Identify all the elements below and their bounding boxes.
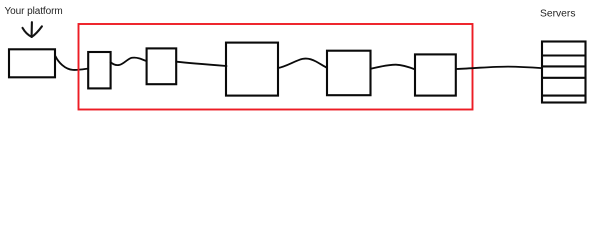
wire E -> servers: [456, 67, 542, 69]
box C: [226, 43, 278, 96]
box B: [147, 48, 177, 84]
red rectangle (proxy group): [79, 24, 473, 110]
wire A -> B: [111, 58, 147, 66]
wire D -> E: [371, 65, 415, 70]
box A: [88, 52, 110, 88]
servers box: [542, 42, 586, 103]
wire B -> C: [176, 62, 226, 66]
servers shelf line 3: [542, 77, 586, 79]
wire C -> D: [278, 59, 327, 68]
svg-text:Servers: Servers: [540, 9, 575, 20]
servers shelf line 2: [542, 65, 586, 67]
box D: [327, 51, 371, 95]
svg-text:Your platform: Your platform: [5, 6, 63, 17]
servers shelf line 4: [542, 95, 586, 97]
platform box: [9, 49, 55, 77]
servers shelf line 1: [542, 54, 586, 56]
arrow down (hand-drawn): [23, 22, 42, 37]
wire platform -> box A: [56, 56, 89, 70]
box E: [415, 54, 456, 95]
